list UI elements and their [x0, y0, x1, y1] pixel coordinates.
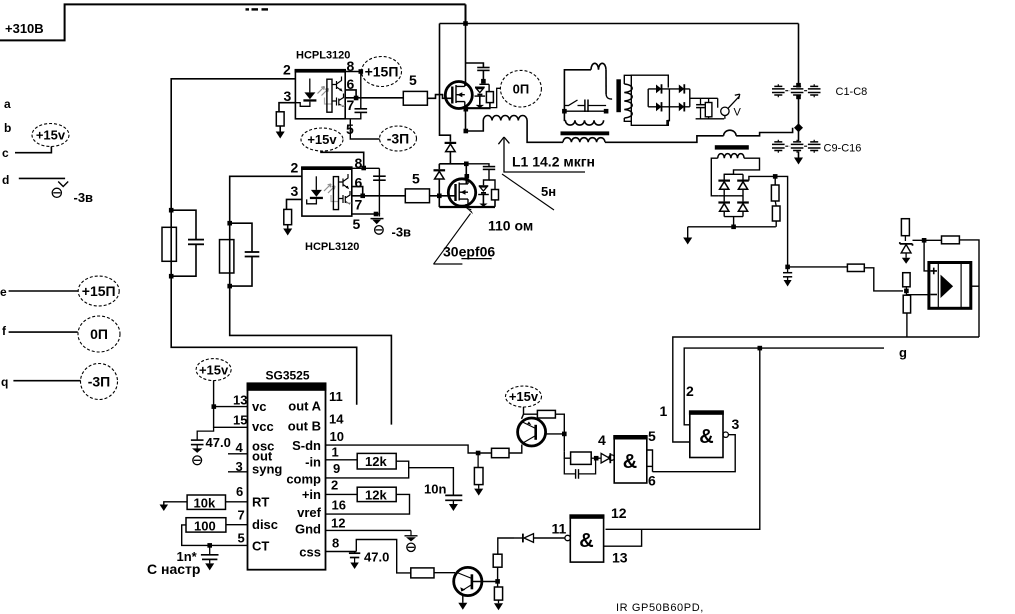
wire pin11 R2 gnd	[498, 600, 500, 603]
opamp triangle	[941, 275, 954, 298]
wire sense right	[605, 70, 607, 94]
label L1 callout	[498, 137, 585, 172]
resistor pin3 upper	[276, 112, 284, 126]
label HCPL3120 lower	[305, 241, 359, 253]
node bus diamond	[794, 123, 803, 132]
IC pin name Sdn	[292, 438, 321, 453]
wire sense gnd line	[688, 226, 776, 228]
wire divider mid	[775, 201, 776, 206]
label e	[0, 285, 7, 299]
gate U4C bubble	[565, 535, 570, 540]
capacitor 47 css	[349, 552, 360, 563]
wire syng stub	[228, 471, 248, 473]
wire clamp node bar	[479, 83, 489, 85]
label C nastr	[147, 561, 200, 577]
wire css	[326, 551, 357, 553]
svg-text:vref: vref	[297, 505, 322, 520]
svg-text:S-dn: S-dn	[292, 438, 321, 453]
svg-text:12: 12	[331, 516, 345, 531]
wire pin3 res gnd	[279, 126, 281, 132]
wire L1 left	[466, 121, 484, 132]
wire sense mid rail	[718, 190, 743, 202]
label C1-C8	[836, 86, 868, 98]
wire RT gnd	[160, 502, 188, 511]
IC pin name disc	[252, 517, 278, 532]
diode bridge D2	[679, 84, 685, 93]
wire snubber lower top	[466, 164, 489, 167]
svg-text:2: 2	[331, 478, 338, 493]
wire zener gnd	[905, 253, 907, 258]
svg-text:6: 6	[236, 484, 243, 499]
capacitor 10n	[445, 495, 462, 504]
capacitor bypass upper	[355, 109, 368, 113]
node vc	[212, 404, 217, 409]
svg-text:2: 2	[291, 160, 299, 176]
wire opamp out	[971, 285, 979, 287]
label pin8 lower	[355, 155, 363, 171]
resistor Rmid	[903, 273, 910, 287]
label pin13	[233, 393, 247, 408]
svg-text:comp: comp	[286, 472, 321, 487]
label -3v lower	[392, 225, 412, 240]
wire deadtime mid	[439, 152, 466, 164]
rail bridge bottom	[648, 106, 690, 108]
wire pin3 lower	[287, 199, 302, 209]
capacitor C gate B	[245, 252, 260, 257]
svg-text:d: d	[2, 173, 9, 187]
wire +310V feed	[0, 4, 466, 40]
node gate lower junction	[437, 194, 442, 199]
rail sense tops	[724, 174, 743, 179]
optocoupler U1 box	[295, 69, 346, 119]
capacitor sense filter	[783, 267, 792, 280]
resistor divider R1	[771, 185, 779, 201]
inductor L1	[483, 116, 527, 121]
svg-text:5: 5	[238, 531, 245, 546]
svg-text:2: 2	[686, 383, 694, 399]
ground pin3 lower	[283, 229, 292, 236]
label pin9ic	[333, 461, 340, 476]
transistor Q3 body	[518, 418, 546, 446]
resistor 10k	[187, 495, 225, 509]
wire snubber upper mid	[482, 70, 484, 80]
svg-text:+in: +in	[302, 487, 321, 502]
inductor sense top coil	[591, 63, 606, 69]
wire Rfb out	[959, 240, 979, 337]
label gateB pin6	[648, 473, 656, 489]
LED U1	[295, 79, 316, 107]
resistor 100	[186, 518, 226, 532]
wire sense signal	[775, 176, 787, 267]
transistor Q1 symbol	[452, 82, 465, 108]
wire clamp res leg	[488, 84, 490, 91]
wire +in	[326, 493, 358, 495]
node Q3 base	[562, 432, 567, 437]
svg-text:+15П: +15П	[82, 283, 116, 299]
IC pin name syng	[252, 462, 282, 477]
label pin8ic	[332, 536, 339, 551]
wire bridge mid column	[667, 89, 669, 125]
label 30epf06 callout	[434, 208, 473, 264]
wire bus mid	[798, 97, 800, 141]
inductor sense secondary	[718, 154, 744, 159]
label cropped dashes	[246, 8, 269, 10]
gate U4A box	[689, 410, 724, 457]
output transistors U1	[332, 77, 345, 107]
svg-text:-in: -in	[305, 455, 321, 470]
label c	[2, 146, 9, 160]
svg-text:CT: CT	[252, 539, 269, 554]
inductor CT secondary	[565, 120, 603, 125]
svg-text:13: 13	[612, 550, 628, 566]
svg-text:5: 5	[412, 171, 420, 187]
wire main line2	[736, 128, 793, 136]
terminal 0P left	[78, 316, 120, 352]
capacitor C gate A	[188, 240, 204, 245]
wire pin6 lower	[352, 187, 363, 196]
wire Sdn pd gnd	[474, 485, 483, 496]
label gateA pin1	[660, 403, 668, 419]
svg-text:vc: vc	[252, 399, 266, 414]
wire CT sense inner	[564, 110, 606, 112]
IC pin name -in	[305, 455, 321, 470]
wire e	[9, 290, 79, 292]
node deadtime mid	[464, 162, 469, 167]
svg-text:100: 100	[194, 519, 216, 534]
label L1 value	[512, 154, 595, 170]
wire plus node	[913, 239, 942, 241]
label gateB pin4	[598, 432, 606, 448]
svg-text:13: 13	[233, 393, 247, 408]
wire snubber upper top	[466, 63, 484, 68]
node L1 tap	[464, 129, 469, 134]
svg-text:3: 3	[284, 88, 292, 104]
svg-text:-3в: -3в	[392, 225, 412, 240]
inductor CT primary	[563, 138, 605, 143]
wire zener node	[904, 236, 906, 241]
wire pin5 upper	[345, 112, 379, 139]
terminal +15v mid	[301, 128, 343, 151]
wire center tap	[733, 217, 735, 227]
rail source lower	[439, 206, 495, 208]
resistor pin11 R2	[494, 587, 502, 600]
node R2C2 top	[227, 221, 232, 226]
wire drain upper	[465, 24, 467, 87]
optocoupler U2 box	[301, 167, 352, 217]
label pin5 upper	[346, 121, 354, 137]
ground pin3 upper	[276, 132, 285, 139]
resistor Q4 base	[411, 568, 434, 578]
label 47.0 vcc	[206, 435, 231, 450]
node Sdn res	[476, 451, 481, 456]
wire deadtime drop	[440, 24, 451, 142]
wire gate lower	[430, 195, 456, 197]
svg-text:+15v: +15v	[199, 362, 229, 377]
svg-text:0П: 0П	[513, 81, 530, 96]
label gateC pin11	[552, 521, 567, 537]
label pin6 lower	[355, 175, 363, 191]
label HCPL3120 upper	[296, 50, 350, 62]
driver bar U1	[327, 79, 332, 112]
wire deadtime drop2	[438, 164, 440, 169]
svg-text:V: V	[734, 107, 742, 119]
core sense transformer	[715, 145, 749, 149]
wire to Rin	[788, 266, 848, 268]
node bank1 bottom	[796, 95, 801, 100]
resistor Rin	[847, 264, 864, 271]
wire Q4 base out	[473, 581, 498, 583]
wire comp to 10n	[409, 468, 454, 495]
node RC out	[594, 456, 599, 461]
svg-text:f: f	[2, 324, 7, 338]
wire gateB pins56	[647, 450, 653, 472]
label q	[1, 375, 8, 389]
label gateB pin5	[648, 428, 656, 444]
feedback grey U1	[325, 98, 333, 105]
box measure module	[631, 75, 668, 125]
wire CT sense left	[564, 70, 591, 121]
terminal -3P mid	[380, 126, 417, 151]
node R2C2 bottom	[227, 284, 232, 289]
wire sense hook	[606, 94, 612, 99]
light arrows U2	[324, 184, 335, 193]
label pin10ic	[330, 429, 344, 444]
terminal -3v left	[52, 182, 68, 198]
label g	[899, 345, 907, 360]
diode sense D6	[737, 180, 749, 190]
label gateC pin13	[612, 550, 628, 566]
IC pin name comp	[286, 472, 321, 487]
opamp U3 box	[929, 263, 971, 309]
diode deadtime D2	[434, 169, 446, 179]
label d	[2, 173, 9, 187]
terminal +15P	[362, 57, 402, 87]
label pin12ic	[331, 516, 345, 531]
diode to pin4	[601, 453, 610, 463]
terminal +15P left	[78, 276, 119, 306]
gate U4C symbol	[579, 530, 593, 552]
wire bypass upper	[360, 72, 362, 109]
wire Gnd pin	[326, 529, 412, 531]
svg-text:C9-C16: C9-C16	[824, 143, 862, 155]
terminal Gnd sym	[405, 530, 418, 551]
wire pin3 res gnd lower	[287, 225, 289, 229]
label 100	[194, 519, 216, 534]
resistor Rfb	[942, 236, 960, 244]
rail bridge left	[647, 89, 649, 107]
wire gateC bus	[606, 348, 760, 529]
svg-text:L1 14.2 мкгн: L1 14.2 мкгн	[512, 154, 595, 170]
gate U4A bubble	[723, 432, 728, 437]
wire pin8 upper	[345, 71, 361, 73]
label 1n*	[177, 549, 198, 564]
resistor R gate A	[162, 227, 176, 261]
ground 10n	[449, 504, 458, 511]
wire deadtime to gate	[438, 179, 440, 207]
terminal 0P mid	[500, 70, 541, 107]
wire f	[9, 331, 78, 333]
svg-text:9: 9	[333, 461, 340, 476]
wire gate upper jog	[427, 95, 452, 99]
svg-text:+15v: +15v	[36, 128, 66, 143]
svg-text:q: q	[1, 375, 8, 389]
svg-text:11: 11	[552, 521, 567, 537]
svg-text:5н: 5н	[541, 184, 556, 199]
wire bank2 bottom	[798, 152, 800, 158]
wire Q4 emitter gnd	[458, 595, 467, 610]
label 12k B	[365, 488, 387, 503]
opamp plus sign	[931, 268, 938, 275]
ground sense	[683, 227, 692, 245]
wire gateC pin13	[604, 529, 642, 546]
node CT sense right	[604, 109, 609, 114]
diode sense D7	[718, 201, 730, 211]
svg-text:+310В: +310В	[5, 21, 44, 36]
resistor R gate B	[220, 240, 234, 273]
node source upper	[464, 107, 469, 112]
svg-text:&: &	[623, 451, 637, 473]
svg-text:5: 5	[409, 72, 417, 88]
resistor 12k A	[357, 453, 396, 469]
rail sense bottom	[724, 212, 743, 217]
label pin7 lower	[355, 197, 363, 213]
wire cap branch B	[230, 223, 252, 286]
svg-text:IR GP50B60PD,: IR GP50B60PD,	[616, 602, 704, 614]
diode bridge D1	[656, 84, 662, 93]
wire sense wind right	[724, 158, 759, 179]
IC pin name CT	[252, 539, 269, 554]
diode clamp upper	[475, 87, 486, 108]
svg-text:1: 1	[660, 403, 668, 419]
svg-text:С настр: С настр	[147, 561, 200, 577]
svg-text:4: 4	[236, 440, 244, 455]
svg-text:disc: disc	[252, 517, 278, 532]
terminal minus vcc	[192, 445, 202, 465]
IC pin name osc out	[252, 439, 274, 464]
resistor Q3 pullup	[537, 410, 555, 418]
label C9-C16	[824, 143, 862, 155]
label pin3 lower	[291, 183, 299, 199]
wire osc stub	[228, 453, 248, 455]
svg-text:HCPL3120: HCPL3120	[305, 241, 359, 253]
IC pin name RT	[252, 495, 269, 510]
label 10n	[424, 482, 446, 497]
node sense filter	[785, 265, 790, 270]
node CT sense left	[562, 109, 567, 114]
resistor divider R2	[772, 206, 780, 221]
ground 1n	[205, 563, 214, 570]
IC pin name Gnd	[295, 522, 321, 537]
voltmeter V	[718, 94, 740, 119]
label b	[4, 121, 11, 135]
IC SG3525 box	[247, 383, 327, 570]
wire Rin to minus	[864, 268, 903, 291]
capacitor bank C9-C16	[772, 140, 821, 153]
capacitor bypass lower	[373, 176, 386, 180]
wire line B	[684, 348, 884, 425]
node drain lower	[465, 174, 470, 179]
feedback grey U2	[331, 195, 339, 202]
label gateA pin3	[732, 416, 740, 432]
svg-text:SG3525: SG3525	[266, 369, 310, 383]
svg-text:+15v: +15v	[509, 389, 539, 404]
diode clamp lower	[478, 186, 489, 207]
svg-text:css: css	[299, 545, 321, 560]
svg-text:+15v: +15v	[307, 132, 337, 147]
wire bypass lower	[378, 168, 380, 214]
wire hop	[724, 130, 737, 136]
svg-text:10k: 10k	[194, 496, 216, 511]
ground zener	[902, 258, 911, 264]
wire source upper	[465, 106, 467, 131]
wire clamp lower res leg	[489, 180, 495, 190]
IC pin name +in	[302, 487, 321, 502]
label gateC pin12	[611, 505, 627, 521]
label pin1ic	[332, 445, 339, 460]
svg-text:a: a	[4, 97, 11, 111]
label pin8 upper	[347, 58, 355, 74]
label pin15	[233, 413, 247, 428]
resistor measure	[705, 98, 712, 119]
svg-text:0П: 0П	[90, 326, 108, 342]
transistor Q4 symbol	[456, 572, 472, 591]
svg-text:syng: syng	[252, 462, 282, 477]
IC pin name vcc	[252, 419, 274, 434]
driver bar U2	[333, 177, 338, 210]
gate U4C box	[569, 514, 604, 562]
wire bus drop	[798, 24, 800, 86]
diode pin11	[514, 534, 534, 543]
svg-text:7: 7	[355, 197, 363, 213]
svg-text:4: 4	[598, 432, 606, 448]
wire sense wind left	[711, 158, 718, 196]
resistor pin3 lower	[284, 209, 292, 224]
wire line A	[673, 337, 979, 442]
output transistors U2	[339, 174, 352, 204]
svg-text:7: 7	[238, 508, 245, 523]
svg-text:12: 12	[611, 505, 627, 521]
label 47.0 css	[364, 550, 389, 565]
wire out A riser	[171, 79, 357, 405]
terminal -3P left	[81, 364, 118, 400]
node pin8 upper	[359, 69, 364, 74]
resistor Rg lower	[405, 189, 429, 203]
wire pin11 R1 bottom	[497, 567, 499, 587]
label pin2 lower	[291, 160, 299, 176]
winding main secondary	[624, 84, 632, 118]
svg-text:2: 2	[283, 62, 291, 78]
wire Q3 base	[546, 433, 565, 435]
wire pin8 lower	[321, 151, 364, 168]
node transistor collector	[495, 579, 500, 584]
ground sense filter	[784, 280, 792, 287]
node snubber upper	[481, 79, 486, 84]
label a	[4, 97, 11, 111]
diode bridge D3	[656, 102, 662, 111]
svg-text:3: 3	[291, 183, 299, 199]
label f	[2, 324, 7, 338]
capacitor 1n	[201, 545, 219, 563]
switch sense	[564, 100, 585, 106]
wire divider bottom	[775, 221, 777, 227]
capacitor sense	[585, 100, 606, 113]
wire css to Q4	[356, 540, 411, 573]
rail source upper	[465, 107, 491, 109]
transistor Q3 symbol	[522, 422, 536, 444]
IC pin name outB	[288, 419, 321, 434]
label pin7ic	[238, 508, 245, 523]
capacitor bank C1-C8	[772, 84, 821, 97]
